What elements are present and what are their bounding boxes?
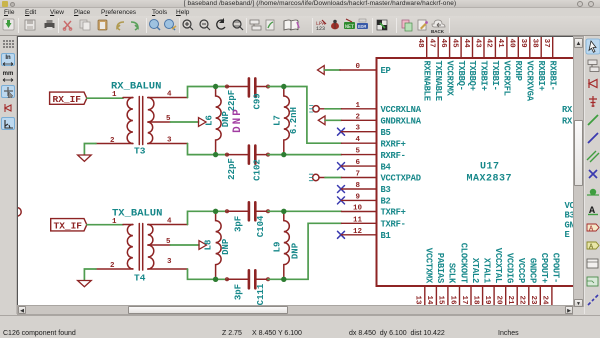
svg-text:B5: B5 (381, 128, 391, 138)
power port at pin7 VCCTXPAD (313, 174, 319, 180)
cut-off labels at canvas right edge (562, 105, 576, 240)
svg-text:GN: GN (565, 221, 574, 231)
hierarchical label arrow (TX mix) (199, 241, 207, 250)
svg-text:VCCTXMX: VCCTXMX (424, 248, 434, 284)
svg-text:CLOCKOUT: CLOCKOUT (458, 243, 468, 284)
svg-text:47: 47 (428, 39, 436, 48)
inductor L8 (216, 211, 222, 279)
svg-text:C111: C111 (256, 283, 266, 305)
wire RX_IF to T3 pin1 (87, 97, 123, 99)
svg-text:41: 41 (496, 39, 504, 49)
svg-text:40: 40 (508, 39, 516, 49)
svg-text:CPOUT-: CPOUT- (551, 253, 561, 283)
svg-text:TXBBI-: TXBBI- (490, 61, 500, 91)
svg-text:23: 23 (529, 296, 537, 306)
svg-text:3: 3 (355, 125, 360, 133)
svg-text:DNP: DNP (221, 110, 231, 127)
svg-text:B3: B3 (381, 185, 391, 195)
svg-text:VCCDIG: VCCDIG (505, 253, 515, 283)
svg-text:1: 1 (112, 218, 117, 226)
svg-text:12: 12 (353, 228, 363, 236)
svg-text:TXBBI+: TXBBI+ (479, 61, 489, 91)
svg-text:DNP: DNP (232, 107, 244, 133)
svg-text:6: 6 (355, 159, 360, 167)
wire pin2 (325, 119, 342, 121)
U17 bottom pin stubs (425, 286, 552, 305)
svg-text:4: 4 (167, 91, 172, 99)
inductor L7 (284, 87, 290, 155)
transformer T3 (96, 97, 188, 145)
svg-text:22pF: 22pF (227, 158, 237, 180)
wire T3 pin2 to ground (84, 144, 96, 155)
U17 left pin numbers (353, 63, 363, 236)
menu bar (0, 8, 600, 16)
svg-text:TXBBQ-: TXBBQ- (456, 61, 466, 91)
svg-text:A: A (589, 206, 595, 217)
svg-text:14: 14 (425, 296, 433, 306)
U17 top pin stubs (427, 37, 553, 58)
svg-text:3: 3 (167, 258, 172, 266)
svg-text:8: 8 (355, 182, 360, 190)
svg-text:VCCRXFL: VCCRXFL (502, 61, 512, 96)
ground symbol GND (RX) (78, 155, 92, 161)
svg-text:RX: RX (562, 105, 573, 115)
wire pin1 (325, 108, 342, 110)
svg-text:TXRF-: TXRF- (381, 220, 406, 230)
wire pin7 (325, 177, 342, 179)
cut-off component at canvas left edge (18, 208, 21, 216)
svg-text:TX_IF: TX_IF (54, 220, 83, 231)
capacitor C111 (226, 270, 270, 288)
svg-text:3pF: 3pF (234, 216, 244, 232)
svg-text:RXRF+: RXRF+ (381, 139, 406, 149)
svg-text:U17: U17 (480, 161, 500, 172)
window title bar (0, 0, 600, 8)
wire T4 pin2 to ground (84, 269, 96, 280)
svg-text:CPOUT+: CPOUT+ (539, 253, 549, 283)
svg-text:RX_IF: RX_IF (53, 94, 82, 105)
right tools toolbar (584, 36, 600, 314)
svg-text:C99: C99 (253, 93, 263, 109)
capacitor C102 (226, 146, 270, 164)
global label TX_IF (51, 219, 87, 231)
global label RX_IF (50, 92, 87, 104)
svg-text:15: 15 (437, 296, 445, 306)
svg-text:DNP: DNP (291, 242, 301, 259)
canvas (17, 36, 573, 305)
U17 left pin stubs (340, 70, 377, 235)
U17 left pin names (381, 66, 422, 241)
wire TX_IF to T4 pin1 (87, 224, 123, 226)
svg-text:44: 44 (462, 39, 470, 49)
svg-text:GNDRXLNA: GNDRXLNA (381, 117, 422, 127)
svg-text:21: 21 (506, 296, 514, 306)
svg-text:L9: L9 (272, 242, 282, 253)
svg-text:2: 2 (355, 113, 360, 121)
svg-text:10: 10 (353, 205, 363, 213)
svg-text:TXENABLE: TXENABLE (433, 61, 443, 101)
hierarchical label arrow at EP (318, 66, 325, 75)
svg-text:T3: T3 (134, 146, 146, 157)
wire T3 pin5 to hierarchical label (171, 121, 199, 123)
svg-text:XTAL2: XTAL2 (470, 258, 480, 283)
svg-text:3: 3 (167, 137, 172, 145)
svg-text:L7: L7 (272, 115, 282, 126)
svg-text:NET: NET (345, 24, 354, 30)
svg-text:L6: L6 (205, 115, 215, 126)
svg-text:VC: VC (565, 201, 574, 211)
svg-text:11: 11 (353, 216, 363, 224)
no-connect X marks (338, 128, 345, 238)
svg-text:RX: RX (562, 117, 573, 127)
capacitor C104 (226, 202, 270, 220)
junction dots RX (213, 84, 287, 158)
svg-text:37: 37 (542, 39, 550, 48)
svg-text:17: 17 (460, 296, 468, 305)
svg-text:13: 13 (414, 296, 422, 306)
U17 top pin names (rotated) (421, 61, 557, 102)
TX top rail right segment to pin10 (268, 210, 342, 212)
vertical scrollbar (573, 36, 584, 307)
svg-text:42: 42 (485, 39, 493, 49)
wire T3 pin3 down to RX bottom rail (188, 144, 228, 155)
svg-text:RXENABLE: RXENABLE (421, 61, 431, 101)
svg-text:B4: B4 (381, 162, 392, 172)
svg-text:B2: B2 (381, 197, 391, 207)
hierarchical label arrow at pin2 GNDRXLNA (318, 116, 325, 125)
svg-text:1: 1 (355, 102, 360, 110)
hierarchical label arrow (RX mix) (199, 118, 207, 127)
svg-text:PABIAS: PABIAS (435, 253, 445, 283)
svg-text:B1: B1 (381, 231, 391, 241)
svg-text:BOM: BOM (358, 24, 367, 30)
svg-text:3pF: 3pF (234, 284, 244, 300)
svg-text:18: 18 (471, 296, 479, 306)
svg-text:9: 9 (355, 193, 360, 201)
svg-text:48: 48 (416, 39, 424, 49)
svg-text:MAX2837: MAX2837 (467, 174, 513, 185)
junction dots TX (213, 209, 287, 282)
U17 bottom pin names (rotated, end-anchored above edge) (424, 243, 561, 284)
svg-text:RXRF-: RXRF- (381, 151, 406, 161)
inductor L9 (284, 211, 290, 279)
svg-text:2: 2 (110, 262, 115, 270)
svg-text:RXHP: RXHP (513, 61, 523, 81)
svg-text:C102: C102 (253, 159, 263, 181)
svg-text:RX_BALUN: RX_BALUN (111, 81, 161, 93)
svg-text:C104: C104 (256, 215, 266, 237)
svg-text:RXBBI+: RXBBI+ (536, 61, 546, 91)
power port at pin1 VCCRXLNA (313, 106, 319, 112)
svg-text:TXBBQ+: TXBBQ+ (467, 61, 477, 91)
inductor L6 (216, 87, 222, 155)
svg-text:E: E (565, 230, 570, 240)
svg-text:RXBBI-: RXBBI- (547, 61, 557, 91)
svg-text:39: 39 (519, 39, 527, 49)
svg-text:VCCCP: VCCCP (516, 258, 526, 283)
wire T4 pin3 down to TX bottom rail (188, 269, 228, 279)
svg-text:VCCTXPAD: VCCTXPAD (381, 174, 421, 184)
svg-text:VCCRXLNA: VCCRXLNA (381, 105, 422, 115)
svg-text:VCCXTAL: VCCXTAL (493, 248, 503, 283)
wire T4 pin5 to hierarchical label (171, 244, 200, 246)
svg-text:7: 7 (355, 171, 360, 179)
svg-text:20: 20 (495, 296, 503, 306)
svg-text:123: 123 (316, 26, 325, 32)
svg-text:L8: L8 (203, 240, 213, 251)
wire T3 pin4 up to RX top rail (188, 87, 228, 98)
wire EP (324, 69, 340, 71)
svg-text:DNP: DNP (221, 238, 231, 255)
svg-text:19: 19 (483, 296, 491, 306)
svg-text:24: 24 (541, 296, 549, 306)
svg-text:22: 22 (518, 296, 526, 306)
svg-text:4: 4 (167, 218, 172, 226)
svg-text:XTAL1: XTAL1 (481, 258, 491, 283)
svg-text:1: 1 (112, 91, 117, 99)
svg-text:5: 5 (355, 148, 360, 156)
svg-text:TXRF+: TXRF+ (381, 208, 406, 218)
U17 bottom pin numbers (rotated) (414, 296, 549, 306)
svg-text:TX_BALUN: TX_BALUN (112, 207, 162, 219)
top toolbar (0, 16, 600, 36)
svg-text:SCLK: SCLK (447, 263, 457, 284)
svg-text:6.2nH: 6.2nH (289, 107, 299, 134)
svg-text:45: 45 (450, 39, 458, 49)
horizontal scrollbar (17, 305, 573, 315)
RX bottom rail to pin5 (268, 154, 342, 156)
RX top rail right segment (268, 87, 342, 144)
wire T4 pin4 up to TX top rail (188, 211, 228, 224)
svg-text:38: 38 (531, 39, 539, 49)
svg-text:B3: B3 (565, 211, 574, 221)
ground symbol GND (TX) (78, 281, 92, 287)
svg-text:VCCRXMX: VCCRXMX (444, 61, 454, 97)
svg-text:VCCRXVGA: VCCRXVGA (525, 61, 535, 102)
TX bottom rail to pin11 riser (268, 223, 342, 279)
left option toolbar (0, 36, 17, 314)
status bar (0, 315, 600, 338)
transformer T4 (96, 224, 188, 271)
IC U17 MAX2837 body (377, 58, 592, 286)
svg-text:EP: EP (381, 66, 391, 76)
svg-text:T4: T4 (134, 273, 146, 284)
U17 top pin numbers (rotated) (416, 39, 550, 49)
svg-text:16: 16 (448, 296, 456, 306)
svg-text:4: 4 (355, 136, 360, 144)
svg-text:43: 43 (473, 39, 481, 49)
svg-text:GNDCP: GNDCP (528, 258, 538, 283)
svg-text:46: 46 (439, 39, 447, 49)
capacitor C99 (226, 78, 270, 96)
svg-text:2: 2 (110, 137, 115, 145)
svg-text:0: 0 (355, 63, 360, 71)
